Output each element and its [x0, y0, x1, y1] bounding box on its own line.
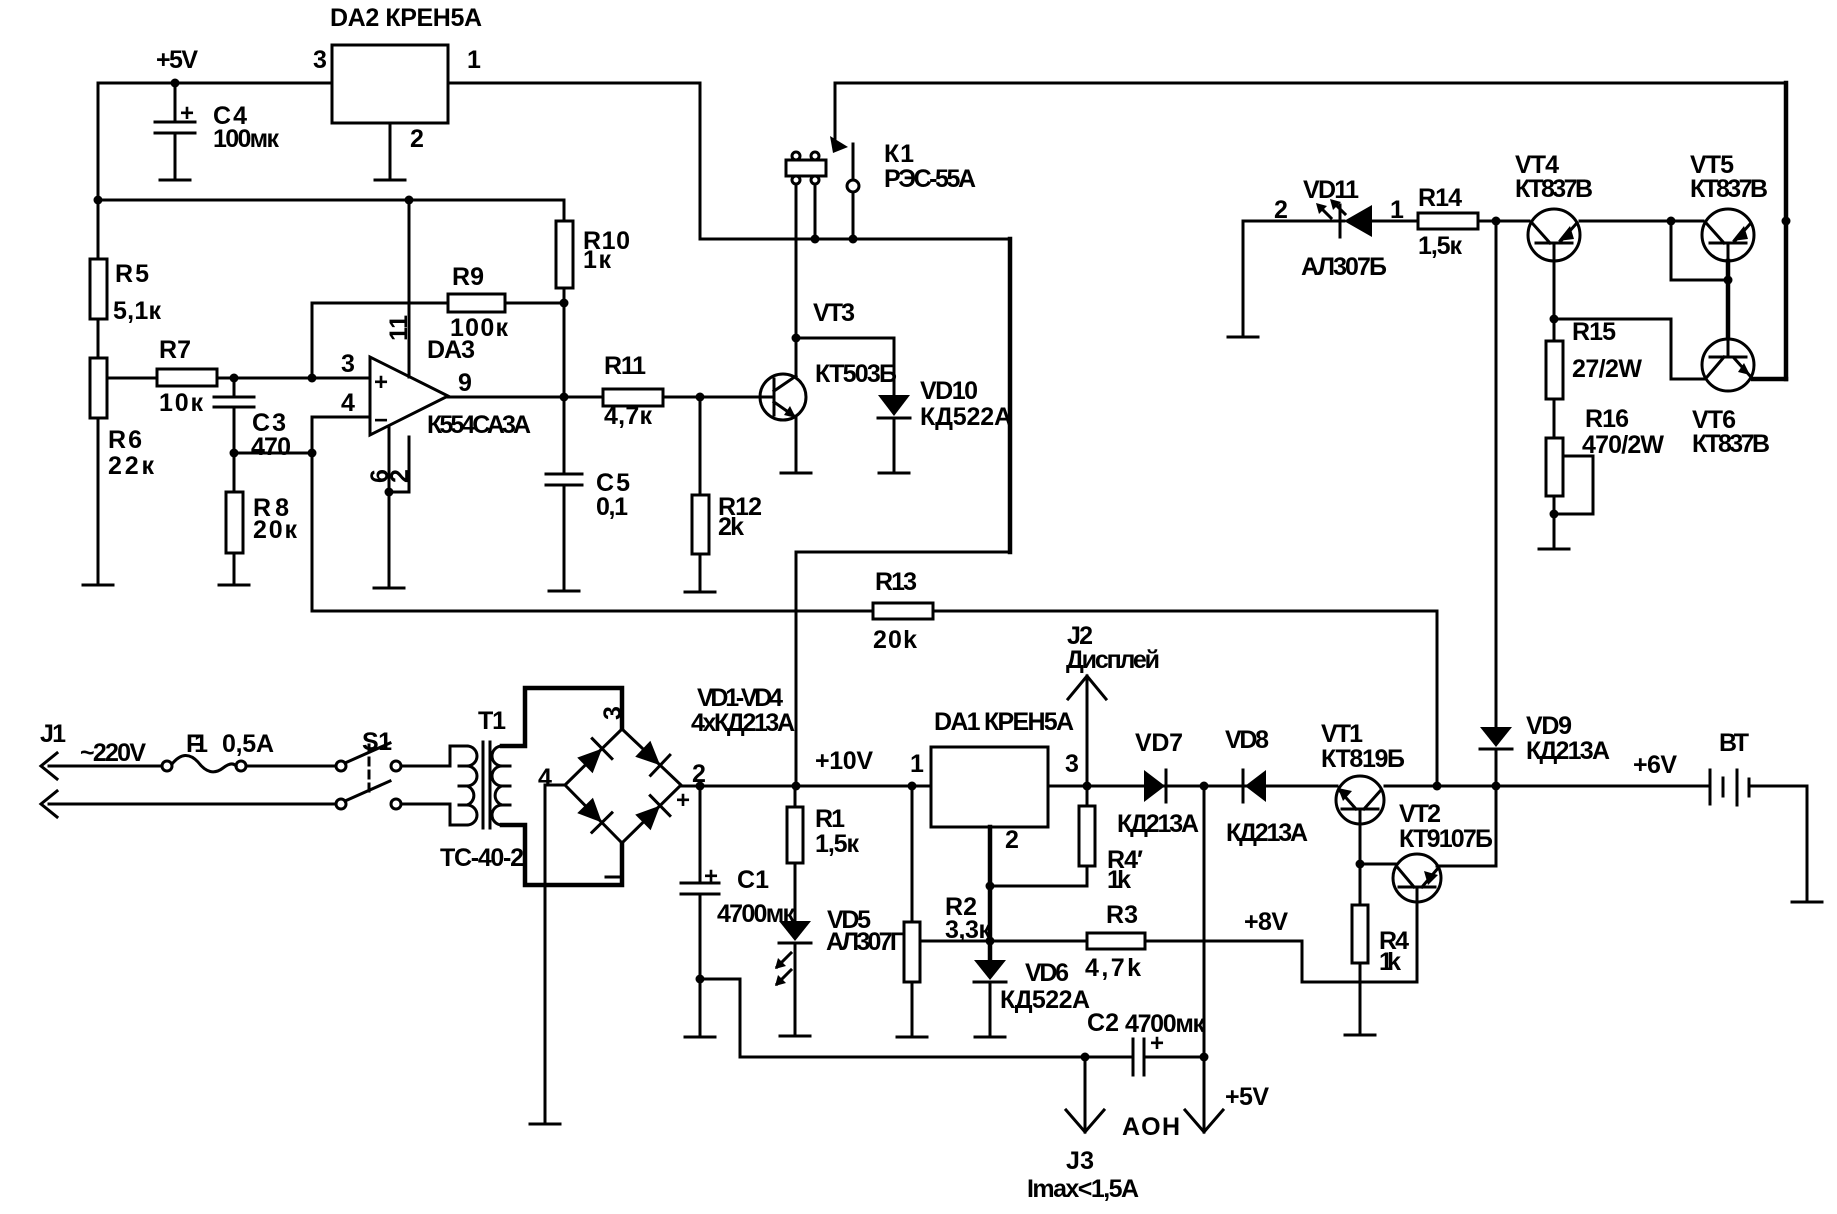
capacitor C3 [214, 378, 291, 461]
svg-text:2: 2 [386, 469, 414, 483]
junction VT5 base branch [1667, 217, 1676, 226]
ground R6 [83, 584, 113, 587]
svg-text:+: + [374, 369, 388, 396]
svg-text:R9: R9 [452, 263, 484, 291]
junction DA1 input [908, 782, 917, 791]
svg-text:100мк: 100мк [213, 125, 279, 153]
resistor R16 [1546, 405, 1664, 548]
junction DA1 output [1083, 782, 1092, 791]
wire left column from rail [97, 83, 100, 199]
svg-text:DA2 КРЕН5А: DA2 КРЕН5А [330, 4, 482, 32]
transistor VT6 [1692, 339, 1770, 458]
ground T1/bridge [530, 1123, 560, 1126]
svg-text:R13: R13 [875, 568, 917, 596]
wire relay coil left lead / VT3 collector [795, 186, 798, 376]
junction VT1/VT2/R4 [1356, 860, 1365, 869]
svg-text:4700мк: 4700мк [1125, 1010, 1205, 1038]
junction pin11 feed [405, 196, 414, 205]
svg-text:R5: R5 [115, 260, 149, 288]
pin 6 of DA3 [388, 427, 391, 492]
wire J1 lower to S1 [49, 803, 336, 806]
ground R4 [1345, 1034, 1375, 1037]
junction C4 top [171, 79, 180, 88]
junction C3 top [230, 374, 239, 383]
junction pin2/R4' [986, 882, 995, 891]
ground R12 [685, 591, 715, 594]
wire T1 secondary bottom to bridge [502, 825, 622, 885]
junction pins 6-2 [385, 488, 394, 497]
ground R2 [897, 1036, 927, 1039]
svg-text:470: 470 [251, 433, 291, 461]
svg-text:2: 2 [1005, 826, 1019, 854]
svg-text:27/2W: 27/2W [1572, 355, 1642, 383]
svg-text:КТ9107Б: КТ9107Б [1399, 825, 1493, 853]
wire R14 to VT4 base [1478, 220, 1529, 223]
resistor R2 [904, 786, 991, 1036]
wire DA2 output rail [448, 82, 700, 85]
regulator DA1 [931, 747, 1048, 827]
resistor R12 [692, 397, 762, 591]
relay K1 contact [830, 83, 859, 239]
svg-text:R15: R15 [1572, 318, 1616, 346]
wire bottom rail right [933, 610, 1437, 613]
junction left column y200 [94, 196, 103, 205]
wire VT4 collector to VT5 [1580, 220, 1703, 223]
svg-text:1: 1 [467, 46, 481, 74]
svg-text:КД522А: КД522А [920, 403, 1012, 431]
ground C4 [160, 179, 190, 182]
svg-text:VD9: VD9 [1526, 712, 1572, 740]
wire top rail right segment [835, 82, 1786, 85]
svg-text:R7: R7 [159, 336, 191, 364]
svg-text:3: 3 [599, 706, 627, 720]
svg-text:C1: C1 [737, 866, 769, 894]
junction VD6 top [986, 937, 995, 946]
wire fuse to S1 [246, 765, 336, 768]
pin 4 wire of DA3 [312, 416, 370, 419]
svg-text:КТ819Б: КТ819Б [1321, 745, 1405, 773]
svg-text:КД522А: КД522А [1000, 986, 1090, 1014]
wire pin4 column down to bottom rail [311, 417, 314, 611]
svg-text:+5V: +5V [156, 46, 198, 74]
svg-text:К554СА3А: К554СА3А [427, 411, 531, 439]
connector AOH +5V arrow [1122, 1057, 1269, 1141]
junction R12 top [696, 393, 705, 402]
svg-text:+: + [676, 787, 690, 814]
wire to VT2 base [1360, 863, 1398, 866]
regulator DA2 [332, 45, 448, 123]
svg-text:−: − [374, 407, 388, 434]
capacitor C5 [546, 397, 630, 590]
junction +5V takeoff [1200, 782, 1209, 791]
wire VT4 emitter down [1553, 261, 1556, 341]
svg-text:3: 3 [341, 350, 355, 378]
wire bridge minus corner down to ground [545, 785, 565, 1123]
wire C1 bottom to minus rail [700, 979, 1133, 1057]
junction R9 tap on pin3 wire [308, 374, 317, 383]
junction R14/VD9 node [1492, 217, 1501, 226]
wire +10V riser [795, 552, 798, 786]
svg-text:C2: C2 [1087, 1009, 1119, 1037]
connector J2 [1066, 622, 1160, 786]
svg-text:VT1: VT1 [1321, 720, 1363, 748]
svg-text:VD6: VD6 [1025, 959, 1069, 987]
svg-text:АЛ307Б: АЛ307Б [1301, 253, 1387, 281]
svg-text:J1: J1 [40, 720, 66, 748]
ground DA2 pin2 [375, 179, 405, 182]
svg-text:2: 2 [410, 125, 424, 153]
diode VD7 [1117, 729, 1199, 838]
capacitor C1 [681, 786, 795, 1036]
junction feedback node [1433, 782, 1442, 791]
junction R16 bottom [1550, 510, 1559, 519]
wire J1 upper to fuse [49, 765, 162, 768]
wire T1 secondary top to bridge [502, 688, 622, 746]
ground VD5 [780, 1035, 810, 1038]
svg-text:20к: 20к [253, 516, 297, 544]
connector J3 [1027, 1057, 1139, 1203]
svg-text:КТ503Б: КТ503Б [815, 360, 897, 388]
pin 9 output wire of DA3 [448, 396, 603, 399]
svg-text:2: 2 [1274, 196, 1288, 224]
svg-text:11: 11 [385, 315, 413, 341]
junction pin4 column [308, 449, 317, 458]
diode VD11 LED [1243, 176, 1418, 281]
ground R8 [219, 584, 249, 587]
resistor R13 [873, 568, 933, 654]
resistor R7 [157, 336, 217, 417]
wire VD9 feed vertical [1495, 221, 1498, 727]
svg-text:VD1-VD4: VD1-VD4 [697, 684, 783, 712]
svg-text:DA1 КРЕН5А: DA1 КРЕН5А [934, 708, 1074, 736]
wire VT1 emitter down [1359, 809, 1362, 864]
svg-text:VD10: VD10 [920, 377, 978, 405]
capacitor C4 [155, 83, 195, 179]
wire R10 node down to output [563, 303, 566, 397]
svg-text:АОН: АОН [1122, 1113, 1180, 1141]
junction right rail VT5 [1782, 217, 1791, 226]
svg-text:+10V: +10V [815, 747, 873, 775]
wire VT2 emitter to +8V line [1302, 902, 1417, 982]
svg-text:КД213А: КД213А [1226, 819, 1308, 847]
svg-text:0,5А: 0,5А [222, 730, 274, 758]
resistor R5 [90, 200, 161, 358]
svg-text:3: 3 [313, 46, 327, 74]
svg-text:РЭС-55А: РЭС-55А [884, 165, 976, 193]
svg-text:22к: 22к [108, 452, 154, 480]
junction VT3 collector node [792, 334, 801, 343]
wire DA1 pin2 down [988, 827, 993, 960]
svg-text:+8V: +8V [1244, 908, 1288, 936]
diode VD10 [878, 338, 1012, 472]
switch S1 [336, 728, 401, 809]
svg-text:3: 3 [1065, 750, 1079, 778]
transformer T1 [440, 707, 524, 872]
resistor R9 [312, 263, 564, 378]
svg-text:КД213А: КД213А [1526, 737, 1610, 765]
wire VT5 emitter to VT6 collector [1726, 261, 1731, 339]
ground VD11 [1242, 221, 1245, 336]
svg-text:+6V: +6V [1633, 751, 1677, 779]
wire bottom rail left [312, 610, 873, 613]
svg-text:1,5к: 1,5к [815, 830, 859, 858]
transistor VT2 [1393, 800, 1493, 902]
wire feedback down to VT1 base node [1436, 611, 1439, 786]
svg-text:КТ837В: КТ837В [1690, 175, 1768, 203]
wire S1 to T1 primary bottom [401, 804, 467, 825]
wire VT3 collector to VD10 [796, 337, 894, 340]
junction J3 node [1081, 1053, 1090, 1062]
svg-text:1,5к: 1,5к [1418, 232, 1462, 260]
svg-text:К1: К1 [884, 140, 914, 168]
svg-text:5,1к: 5,1к [113, 297, 161, 325]
transistor VT1 [1321, 720, 1405, 824]
ground C5 [549, 590, 579, 593]
pin 3 wire of DA3 [312, 377, 370, 380]
wire +10V rail [681, 785, 1337, 788]
svg-text:R6: R6 [108, 426, 142, 454]
fuse F1 [162, 730, 274, 772]
ground DA3 [388, 492, 391, 587]
transistor VT5 [1690, 151, 1768, 261]
junction +5V/C2 [1200, 1053, 1209, 1062]
ground VD6 [975, 1036, 1005, 1039]
svg-text:VD7: VD7 [1135, 729, 1183, 757]
junction R9/R10 [560, 299, 569, 308]
svg-text:DA3: DA3 [427, 336, 475, 364]
svg-text:0,1: 0,1 [596, 493, 628, 521]
wire R16 bypass [1554, 456, 1593, 514]
svg-text:10к: 10к [159, 389, 203, 417]
wire VT5/VT6 tie [1671, 221, 1728, 280]
junction R15 top [1550, 315, 1559, 324]
wire pin2 to R4' [990, 866, 1087, 886]
wire R11 to VT3 base [663, 396, 761, 399]
svg-text:АЛ307Г: АЛ307Г [826, 928, 904, 956]
resistor R10 [556, 200, 630, 303]
capacitor C2 [1087, 1009, 1205, 1075]
svg-text:20k: 20k [873, 626, 917, 654]
resistor R14 [1418, 184, 1478, 260]
svg-text:VT2: VT2 [1399, 800, 1441, 828]
potentiometer R6 [90, 358, 157, 584]
svg-text:ТС-40-2: ТС-40-2 [440, 844, 524, 872]
wire corner DA2 out down [699, 83, 702, 239]
svg-text:КТ837В: КТ837В [1692, 430, 1770, 458]
svg-text:VD11: VD11 [1303, 176, 1359, 204]
svg-text:R14: R14 [1418, 184, 1462, 212]
wire R7 to pin3 [217, 377, 369, 380]
junction C1 top [696, 782, 705, 791]
diode VD8 [1225, 726, 1308, 847]
svg-text:R3: R3 [1106, 901, 1138, 929]
svg-text:J3: J3 [1066, 1147, 1094, 1175]
svg-text:BT: BT [1719, 729, 1749, 757]
svg-text:R16: R16 [1585, 405, 1629, 433]
svg-text:1k: 1k [1107, 866, 1131, 894]
junction C3/R8 node [230, 449, 239, 458]
wire relay supply bottom horizontal [796, 551, 1010, 554]
ground C1 [685, 1036, 715, 1039]
svg-text:4,7k: 4,7k [1085, 954, 1141, 982]
connector J1 [40, 720, 66, 817]
svg-text:S1: S1 [362, 728, 392, 756]
svg-text:1: 1 [910, 750, 924, 778]
wire VT2 collector up [1437, 786, 1496, 866]
wire second horizontal y200 [98, 199, 564, 202]
svg-text:VD8: VD8 [1225, 726, 1269, 754]
svg-text:4хКД213А: 4хКД213А [691, 709, 795, 737]
wire R15 node to VT6 [1554, 319, 1704, 379]
junction output/C5 [560, 393, 569, 402]
wire VT3 emitter to ground [795, 418, 798, 472]
junction VD9 bottom [1492, 782, 1501, 791]
svg-text:+: + [180, 100, 194, 127]
resistor R11 [603, 352, 663, 430]
svg-text:~220V: ~220V [80, 739, 146, 767]
svg-text:1k: 1k [1379, 948, 1401, 976]
junction VT5-VT6 mid [1724, 276, 1733, 285]
resistor R4' [1079, 786, 1143, 894]
wire +5V rail left [98, 82, 332, 85]
ground R16 [1539, 548, 1569, 551]
svg-text:F1: F1 [186, 730, 208, 758]
diode VD6 [974, 959, 1090, 1036]
ground BT [1792, 901, 1822, 904]
resistor R3 [1085, 901, 1302, 982]
svg-text:+: + [704, 863, 718, 890]
wire top-right corner down [1784, 83, 1789, 379]
diode bridge VD1-VD4 [538, 706, 706, 877]
svg-text:VT3: VT3 [813, 299, 855, 327]
transistor VT3 [760, 299, 897, 420]
wire relay supply right vertical [1008, 239, 1013, 552]
svg-text:4,7к: 4,7к [604, 402, 652, 430]
wire +5V column [1203, 786, 1206, 1056]
relay K1 coil [786, 152, 826, 184]
wire VT6 collector right [1753, 377, 1786, 382]
pin 2 of DA3 [389, 437, 409, 492]
wire R2 tap to R3 [920, 940, 1087, 943]
transistor VT4 [1515, 151, 1593, 261]
wire relay coil right lead [814, 186, 817, 239]
resistor R4 [1352, 864, 1409, 1034]
diode VD9 [1480, 712, 1610, 786]
svg-text:9: 9 [458, 369, 472, 397]
junction relay contact to supply [849, 235, 858, 244]
resistor R1 [787, 786, 859, 921]
svg-text:1: 1 [1390, 196, 1404, 224]
svg-text:2k: 2k [718, 513, 744, 541]
wire relay supply horizontal [700, 238, 1010, 241]
svg-text:Дисплей: Дисплей [1066, 646, 1160, 674]
svg-text:Imax<1,5А: Imax<1,5А [1027, 1175, 1139, 1203]
svg-text:R1: R1 [815, 805, 845, 833]
junction R1 top / riser [792, 782, 801, 791]
svg-text:R11: R11 [604, 352, 646, 380]
ground VD10 [879, 472, 909, 475]
diode VD5 LED [775, 906, 904, 1035]
op-amp DA3 [370, 336, 531, 439]
battery BT [1710, 729, 1749, 805]
svg-text:КД213А: КД213А [1117, 810, 1199, 838]
svg-text:+5V: +5V [1225, 1083, 1269, 1111]
wire S1 to T1 primary top [401, 746, 467, 766]
svg-text:КТ837В: КТ837В [1515, 175, 1593, 203]
pin 11 of DA3 [408, 200, 411, 377]
svg-text:4: 4 [341, 389, 355, 417]
wire +6V rail [1385, 785, 1708, 788]
junction C1 bottom [696, 975, 705, 984]
wire battery to ground [1751, 786, 1807, 901]
resistor R15 [1546, 318, 1642, 438]
resistor R8 [226, 453, 297, 584]
wire C3 node to pin4 column [234, 452, 312, 455]
svg-text:T1: T1 [478, 707, 506, 735]
